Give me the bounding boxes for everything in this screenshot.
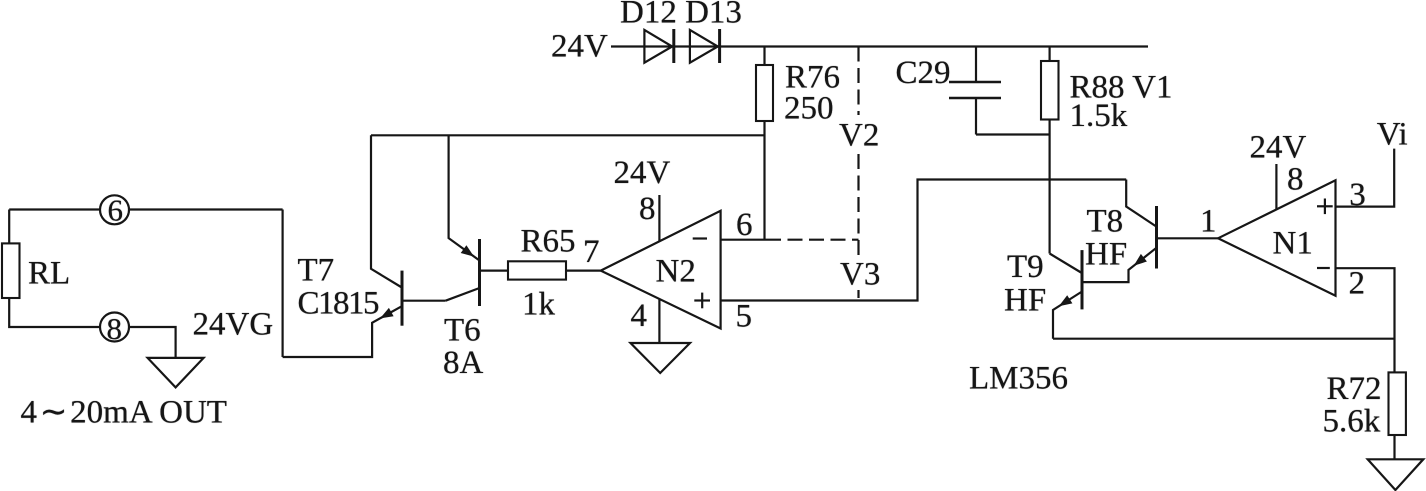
svg-text:24V: 24V	[551, 29, 608, 65]
svg-text:T8: T8	[1087, 204, 1124, 240]
svg-text:C29: C29	[896, 55, 951, 91]
svg-text:RL: RL	[28, 256, 70, 292]
wire C29 bottom to R88 line	[976, 133, 1050, 135]
resistor R72	[1389, 372, 1406, 435]
svg-text:V2: V2	[839, 118, 879, 154]
svg-text:V3: V3	[840, 256, 880, 292]
label V2	[834, 115, 883, 151]
svg-text:1: 1	[1200, 203, 1217, 239]
transistor T7	[283, 135, 446, 357]
svg-text:2: 2	[1349, 266, 1366, 302]
terminal 6	[100, 195, 129, 224]
wire N2 pin 4 lead	[658, 299, 660, 342]
svg-text:1.5k: 1.5k	[1070, 98, 1128, 134]
svg-text:24V: 24V	[1250, 130, 1307, 166]
svg-text:HF: HF	[1085, 236, 1127, 272]
svg-text:6: 6	[736, 207, 753, 243]
wire second rail to T7/T6	[371, 134, 765, 136]
terminal 8	[100, 313, 129, 342]
wire dashed from R76 node to V2	[766, 239, 859, 241]
svg-text:LM356: LM356	[969, 360, 1068, 396]
svg-text:5: 5	[736, 299, 753, 335]
svg-text:8: 8	[1287, 162, 1304, 198]
wire N2 pin 7 output	[566, 270, 601, 272]
capacitor C29	[949, 47, 1001, 135]
wire R88 branch vertical	[1048, 47, 1050, 254]
svg-text:24VG: 24VG	[193, 307, 274, 343]
transistor T6	[446, 135, 480, 306]
wire terminal 6 to right	[129, 208, 283, 210]
svg-text:8: 8	[107, 311, 123, 346]
diode D12	[644, 29, 673, 63]
svg-text:T7: T7	[298, 252, 335, 288]
wire T8 base to N1 pin 1	[1157, 237, 1219, 239]
ground (output 24VG)	[148, 358, 204, 388]
svg-text:C1815: C1815	[298, 286, 380, 322]
svg-text:24V: 24V	[614, 155, 671, 191]
wire N2 pin 8 supply lead	[658, 195, 660, 241]
resistor RL	[2, 243, 20, 298]
svg-text:4: 4	[631, 298, 648, 334]
svg-text:N1: N1	[1273, 225, 1313, 261]
wire 24V top rail	[611, 45, 1148, 47]
wire RL bottom to terminal 8	[9, 298, 100, 327]
svg-text:D12 D13: D12 D13	[620, 0, 742, 31]
resistor R65	[508, 261, 566, 279]
svg-text:250: 250	[784, 91, 834, 127]
svg-text:1k: 1k	[522, 286, 556, 322]
svg-text:N2: N2	[656, 254, 696, 290]
svg-text:5.6k: 5.6k	[1323, 404, 1381, 440]
transistor T8	[1083, 180, 1157, 283]
ground (N2 pin 4)	[631, 343, 691, 373]
wire N1 pin 3 to Vi	[1336, 149, 1395, 207]
svg-text:Vi: Vi	[1377, 117, 1408, 153]
svg-text:8A: 8A	[443, 345, 484, 381]
svg-text:8: 8	[639, 191, 656, 227]
svg-text:R65: R65	[521, 223, 576, 259]
wire N2 pin 6	[721, 239, 766, 241]
op-amp N1	[1218, 180, 1336, 295]
diode D13	[690, 29, 720, 63]
resistor R88	[1041, 61, 1059, 120]
label V3	[832, 255, 883, 290]
svg-text:3: 3	[1349, 177, 1366, 213]
svg-text:R72: R72	[1327, 371, 1382, 407]
wire R76 branch vertical	[763, 47, 765, 240]
svg-text:6: 6	[108, 193, 124, 228]
wire down to RL	[8, 210, 10, 244]
wire bottom feedback rail	[1053, 338, 1395, 340]
wire R65 left lead	[480, 270, 509, 272]
svg-text:T9: T9	[1007, 249, 1044, 285]
ground (R72)	[1368, 459, 1424, 490]
node V2 dashed line	[857, 47, 859, 301]
wire N2 pin 5 to right and up to T8 collector rail	[721, 180, 1127, 301]
svg-text:HF: HF	[1004, 282, 1046, 318]
wire N1 pin 2 feedback down	[1336, 268, 1395, 459]
wire terminal 6 to left	[9, 208, 100, 210]
transistor T9	[1050, 250, 1082, 339]
svg-text:T6: T6	[444, 312, 481, 348]
op-amp N2	[601, 211, 721, 329]
resistor R76	[756, 65, 773, 121]
wire N1 pin 8 supply lead	[1275, 164, 1277, 209]
wire left loop from terminal 6 down to T7 emitter	[282, 210, 284, 358]
svg-text:4 ∼ 20mA OUT: 4 ∼ 20mA OUT	[21, 393, 227, 431]
svg-text:7: 7	[583, 234, 600, 270]
wire terminal 8 to ground	[129, 327, 176, 358]
